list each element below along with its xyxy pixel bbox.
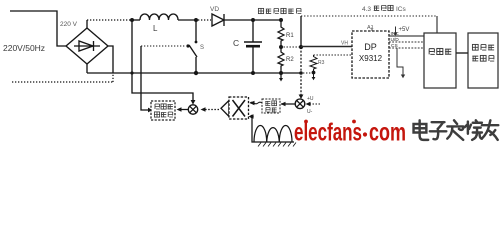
svg-text:220V/50Hz: 220V/50Hz — [3, 43, 45, 53]
svg-text:220 V: 220 V — [60, 21, 78, 28]
svg-text:R2: R2 — [286, 57, 294, 63]
svg-text:VD: VD — [210, 6, 219, 13]
svg-text:A1: A1 — [367, 25, 374, 31]
svg-text:R1: R1 — [286, 33, 294, 39]
svg-text:elecfans: elecfans — [294, 119, 362, 147]
svg-text:com: com — [369, 119, 406, 147]
svg-text:ICs: ICs — [396, 6, 407, 13]
svg-text:X9312: X9312 — [359, 54, 383, 63]
svg-text:R3: R3 — [318, 60, 325, 66]
svg-text:4.3: 4.3 — [362, 6, 371, 13]
svg-text:+U: +U — [307, 96, 314, 102]
svg-text:CS: CS — [391, 43, 398, 49]
svg-text:VH: VH — [341, 41, 348, 47]
svg-text:U-: U- — [307, 109, 313, 115]
svg-text:+5V: +5V — [399, 27, 410, 33]
svg-text:C: C — [233, 38, 239, 48]
svg-text:DP: DP — [364, 42, 377, 52]
svg-text:L: L — [153, 24, 158, 33]
svg-text:S: S — [200, 45, 204, 51]
svg-text:U/D: U/D — [391, 37, 400, 43]
